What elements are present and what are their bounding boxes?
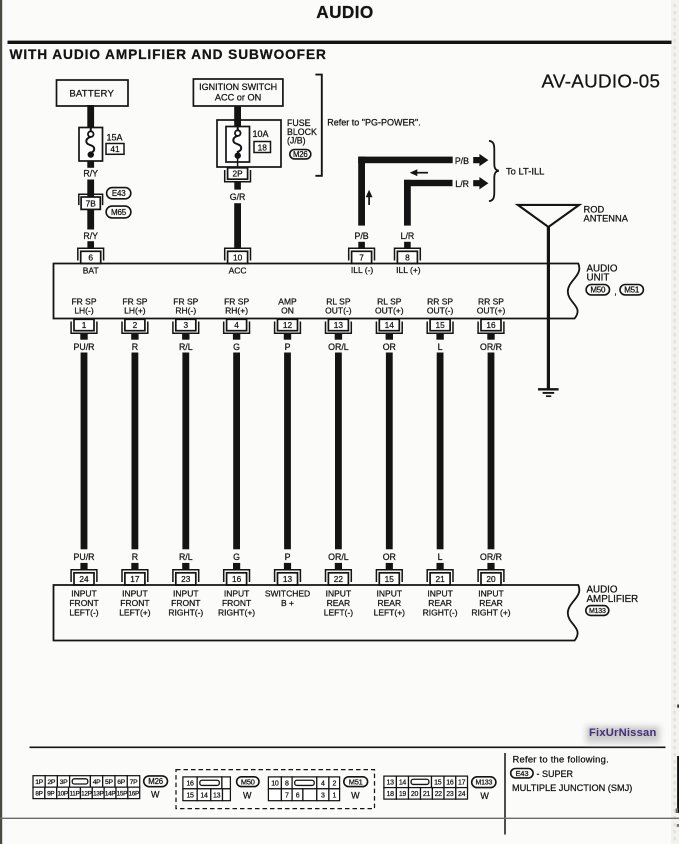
svg-text:INPUT: INPUT bbox=[326, 589, 352, 599]
svg-text:M26: M26 bbox=[148, 777, 163, 786]
svg-text:Refer to the following.: Refer to the following. bbox=[513, 753, 609, 764]
svg-text:REAR: REAR bbox=[377, 598, 401, 608]
svg-text:PU/R: PU/R bbox=[73, 342, 94, 352]
svg-text:SWITCHED: SWITCHED bbox=[265, 589, 310, 599]
svg-text:FRONT: FRONT bbox=[222, 598, 251, 608]
svg-text:INPUT: INPUT bbox=[224, 589, 250, 599]
svg-text:PU/R: PU/R bbox=[73, 552, 94, 562]
svg-text:4: 4 bbox=[321, 781, 325, 788]
svg-text:14: 14 bbox=[385, 320, 395, 330]
svg-text:G/R: G/R bbox=[230, 192, 246, 202]
svg-text:RH(+): RH(+) bbox=[225, 306, 248, 316]
svg-text:OR/R: OR/R bbox=[480, 342, 502, 352]
svg-text:LH(-): LH(-) bbox=[74, 306, 94, 316]
svg-text:10A: 10A bbox=[253, 129, 269, 139]
svg-text:13: 13 bbox=[283, 574, 293, 584]
svg-text:OUT(-): OUT(-) bbox=[325, 306, 352, 316]
svg-text:15P: 15P bbox=[117, 791, 128, 798]
svg-text:M51: M51 bbox=[624, 286, 640, 295]
svg-text:BATTERY: BATTERY bbox=[69, 89, 114, 100]
svg-text:ACC: ACC bbox=[229, 266, 247, 276]
svg-text:3P: 3P bbox=[60, 779, 68, 786]
svg-text:M51: M51 bbox=[349, 777, 363, 786]
svg-text:L/R: L/R bbox=[401, 231, 415, 241]
svg-text:21: 21 bbox=[423, 791, 431, 798]
svg-text:2: 2 bbox=[332, 781, 336, 788]
svg-text:7P: 7P bbox=[130, 779, 138, 786]
svg-text:AV-AUDIO-05: AV-AUDIO-05 bbox=[542, 71, 661, 92]
svg-text:P: P bbox=[285, 342, 291, 352]
svg-text:P/B: P/B bbox=[455, 156, 469, 166]
svg-text:M133: M133 bbox=[475, 780, 492, 787]
svg-text:13: 13 bbox=[387, 780, 395, 787]
svg-text:P/B: P/B bbox=[355, 231, 369, 241]
svg-text:R: R bbox=[132, 552, 138, 562]
svg-text:6P: 6P bbox=[117, 779, 125, 786]
svg-text:INPUT: INPUT bbox=[173, 589, 199, 599]
svg-text:FRONT: FRONT bbox=[120, 598, 149, 608]
svg-text:16P: 16P bbox=[129, 791, 140, 798]
svg-text:M26: M26 bbox=[293, 150, 308, 159]
svg-text:23: 23 bbox=[181, 574, 191, 584]
svg-text:18: 18 bbox=[387, 791, 395, 798]
svg-text:FRONT: FRONT bbox=[171, 598, 200, 608]
svg-text:16: 16 bbox=[446, 780, 454, 787]
svg-text:E43: E43 bbox=[515, 769, 528, 778]
svg-text:12: 12 bbox=[283, 320, 293, 330]
svg-text:20: 20 bbox=[486, 574, 496, 584]
svg-text:3: 3 bbox=[321, 793, 325, 800]
svg-text:2P: 2P bbox=[233, 169, 244, 179]
svg-text:14P: 14P bbox=[105, 791, 116, 798]
svg-text:ACC or ON: ACC or ON bbox=[215, 93, 261, 103]
svg-text:M50: M50 bbox=[590, 286, 606, 295]
svg-text:15: 15 bbox=[435, 320, 445, 330]
svg-text:3: 3 bbox=[183, 320, 188, 330]
svg-text:17: 17 bbox=[458, 780, 466, 787]
svg-text:LEFT(-): LEFT(-) bbox=[69, 608, 98, 618]
svg-text:13: 13 bbox=[334, 320, 344, 330]
svg-text:M133: M133 bbox=[589, 608, 606, 615]
svg-text:RH(-): RH(-) bbox=[175, 306, 196, 316]
svg-text:BAT: BAT bbox=[83, 266, 99, 276]
svg-text:16: 16 bbox=[486, 320, 496, 330]
svg-text:8: 8 bbox=[285, 781, 289, 788]
svg-text:AUDIO: AUDIO bbox=[316, 2, 373, 22]
svg-text:15: 15 bbox=[434, 780, 442, 787]
svg-text:UNIT: UNIT bbox=[587, 272, 610, 283]
svg-text:22: 22 bbox=[334, 574, 344, 584]
svg-text:16: 16 bbox=[186, 781, 194, 788]
svg-text:15: 15 bbox=[385, 574, 395, 584]
svg-text:OR: OR bbox=[383, 552, 396, 562]
svg-text:L/R: L/R bbox=[455, 179, 469, 189]
svg-text:6: 6 bbox=[88, 252, 93, 262]
svg-text:E43: E43 bbox=[112, 189, 126, 198]
svg-text:23: 23 bbox=[446, 791, 454, 798]
svg-text:21: 21 bbox=[435, 574, 445, 584]
svg-text:R: R bbox=[132, 342, 138, 352]
svg-text:LEFT(+): LEFT(+) bbox=[119, 608, 151, 618]
svg-text:14: 14 bbox=[399, 780, 407, 787]
svg-text:REAR: REAR bbox=[327, 598, 351, 608]
svg-text:18: 18 bbox=[258, 142, 268, 152]
svg-text:2P: 2P bbox=[47, 779, 55, 786]
svg-text:10P: 10P bbox=[57, 791, 68, 798]
svg-text:W: W bbox=[351, 790, 360, 800]
svg-text:41: 41 bbox=[110, 144, 120, 154]
svg-text:RIGHT (+): RIGHT (+) bbox=[471, 608, 510, 618]
svg-text:24: 24 bbox=[458, 791, 466, 798]
svg-text:13: 13 bbox=[213, 793, 221, 800]
svg-text:15: 15 bbox=[186, 793, 194, 800]
svg-text:OUT(+): OUT(+) bbox=[375, 306, 404, 316]
svg-text:L: L bbox=[438, 552, 443, 562]
svg-text:P: P bbox=[285, 552, 291, 562]
svg-text:R/Y: R/Y bbox=[83, 231, 98, 241]
svg-text:22: 22 bbox=[435, 791, 443, 798]
svg-text:OUT(+): OUT(+) bbox=[477, 306, 506, 316]
svg-text:RIGHT(-): RIGHT(-) bbox=[168, 608, 203, 618]
svg-text:G: G bbox=[233, 552, 240, 562]
svg-text:10: 10 bbox=[271, 781, 279, 788]
svg-text:ILL (-): ILL (-) bbox=[351, 265, 374, 275]
svg-text:REAR: REAR bbox=[479, 598, 503, 608]
svg-text:8P: 8P bbox=[35, 791, 42, 798]
svg-text:1: 1 bbox=[82, 320, 87, 330]
svg-text:LEFT(+): LEFT(+) bbox=[374, 608, 406, 618]
svg-text:LEFT(-): LEFT(-) bbox=[324, 608, 353, 618]
svg-text:INPUT: INPUT bbox=[377, 589, 403, 599]
svg-text:W: W bbox=[151, 790, 160, 800]
svg-text:OR/L: OR/L bbox=[328, 552, 349, 562]
svg-text:7B: 7B bbox=[86, 199, 97, 209]
svg-text:1: 1 bbox=[332, 793, 336, 800]
svg-text:LH(+): LH(+) bbox=[124, 306, 146, 316]
svg-text:WITH AUDIO AMPLIFIER AND SUBWO: WITH AUDIO AMPLIFIER AND SUBWOOFER bbox=[10, 47, 327, 62]
svg-text:REAR: REAR bbox=[428, 598, 452, 608]
svg-text:2: 2 bbox=[133, 320, 138, 330]
svg-text:16: 16 bbox=[232, 574, 242, 584]
svg-text:INPUT: INPUT bbox=[122, 589, 148, 599]
svg-text:AMPLIFIER: AMPLIFIER bbox=[587, 594, 639, 605]
svg-text:24: 24 bbox=[79, 574, 89, 584]
svg-text:RIGHT(+): RIGHT(+) bbox=[218, 608, 255, 618]
svg-text:R/Y: R/Y bbox=[83, 168, 98, 178]
svg-text:14: 14 bbox=[200, 793, 208, 800]
svg-text:OR/L: OR/L bbox=[328, 342, 349, 352]
svg-text:1P: 1P bbox=[35, 779, 43, 786]
svg-text:4: 4 bbox=[234, 320, 239, 330]
svg-text:9P: 9P bbox=[47, 791, 54, 798]
svg-text:OUT(-): OUT(-) bbox=[427, 306, 454, 316]
svg-text:10: 10 bbox=[233, 252, 243, 262]
svg-text:(J/B): (J/B) bbox=[287, 136, 306, 146]
svg-text:7: 7 bbox=[285, 793, 289, 800]
svg-text:B +: B + bbox=[281, 598, 294, 608]
svg-text:IGNITION SWITCH: IGNITION SWITCH bbox=[199, 82, 277, 92]
svg-text:ON: ON bbox=[281, 306, 294, 316]
svg-text:L: L bbox=[438, 342, 443, 352]
svg-text:17: 17 bbox=[130, 574, 140, 584]
svg-text:INPUT: INPUT bbox=[478, 589, 504, 599]
svg-text:W: W bbox=[480, 791, 489, 801]
svg-text:11P: 11P bbox=[69, 791, 79, 798]
svg-text:5P: 5P bbox=[105, 779, 113, 786]
svg-text:ANTENNA: ANTENNA bbox=[584, 213, 629, 223]
svg-text:M50: M50 bbox=[241, 777, 255, 786]
svg-text:,: , bbox=[614, 287, 617, 297]
svg-text:- SUPER: - SUPER bbox=[537, 769, 574, 779]
svg-text:ILL (+): ILL (+) bbox=[396, 265, 421, 275]
svg-text:R/L: R/L bbox=[179, 552, 193, 562]
svg-text:To LT-ILL: To LT-ILL bbox=[506, 165, 544, 176]
svg-text:19: 19 bbox=[399, 791, 407, 798]
svg-text:MULTIPLE JUNCTION (SMJ): MULTIPLE JUNCTION (SMJ) bbox=[512, 783, 632, 793]
svg-text:15A: 15A bbox=[107, 133, 123, 143]
svg-text:8: 8 bbox=[405, 252, 410, 262]
svg-text:OR/R: OR/R bbox=[480, 552, 502, 562]
svg-text:7: 7 bbox=[359, 252, 364, 262]
svg-text:6: 6 bbox=[296, 793, 300, 800]
svg-text:13P: 13P bbox=[93, 791, 104, 798]
svg-text:FRONT: FRONT bbox=[69, 598, 98, 608]
svg-text:W: W bbox=[243, 790, 252, 800]
svg-text:M65: M65 bbox=[111, 208, 127, 217]
svg-text:R/L: R/L bbox=[179, 342, 193, 352]
svg-text:20: 20 bbox=[411, 791, 419, 798]
svg-text:INPUT: INPUT bbox=[427, 589, 453, 599]
svg-text:12P: 12P bbox=[81, 791, 92, 798]
svg-text:INPUT: INPUT bbox=[71, 589, 97, 599]
svg-text:Refer to "PG-POWER".: Refer to "PG-POWER". bbox=[327, 118, 420, 128]
svg-text:RIGHT(-): RIGHT(-) bbox=[423, 608, 458, 618]
svg-text:G: G bbox=[233, 342, 240, 352]
svg-text:OR: OR bbox=[383, 342, 396, 352]
svg-text:4P: 4P bbox=[93, 779, 101, 786]
